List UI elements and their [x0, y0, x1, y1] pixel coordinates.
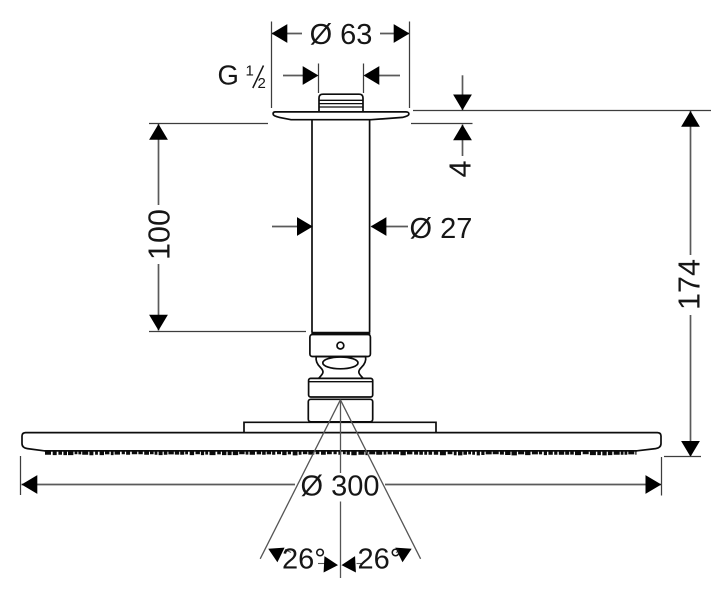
- svg-text:G: G: [218, 60, 239, 91]
- svg-text:4: 4: [444, 160, 478, 177]
- svg-text:Ø 300: Ø 300: [301, 471, 380, 503]
- svg-text:100: 100: [142, 209, 176, 260]
- svg-text:2: 2: [258, 75, 266, 92]
- svg-text:1: 1: [246, 63, 254, 80]
- svg-text:26°: 26°: [282, 544, 326, 576]
- svg-text:Ø 27: Ø 27: [410, 213, 473, 245]
- svg-text:26°: 26°: [358, 544, 402, 576]
- svg-text:Ø 63: Ø 63: [310, 19, 373, 51]
- svg-text:174: 174: [673, 259, 707, 310]
